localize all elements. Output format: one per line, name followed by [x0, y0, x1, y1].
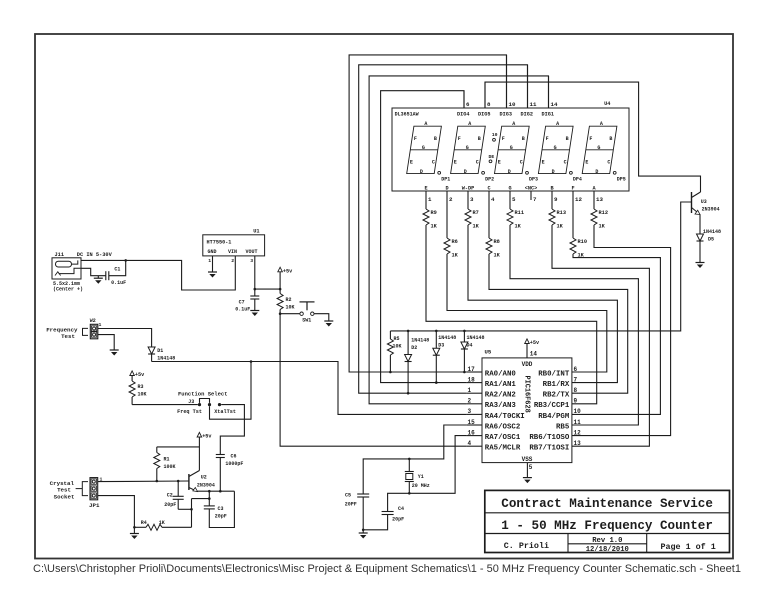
svg-text:DIG3: DIG3 — [500, 111, 512, 117]
svg-text:C. Prioli: C. Prioli — [504, 541, 549, 551]
svg-text:11: 11 — [530, 101, 537, 108]
svg-text:A: A — [600, 121, 603, 127]
svg-text:D: D — [552, 169, 555, 175]
wire J11 sleeve to ground and C1 — [81, 268, 106, 275]
wire C2 bottom — [178, 508, 191, 510]
svg-text:Test: Test — [61, 333, 75, 340]
wire OSC2 to Y1/C5 — [363, 425, 466, 494]
svg-text:3: 3 — [250, 258, 253, 264]
svg-text:7: 7 — [574, 376, 578, 383]
svg-text:B: B — [522, 136, 525, 142]
power +5V near R2 — [278, 267, 283, 272]
wire segment C to RB2 — [489, 254, 628, 393]
svg-text:R10: R10 — [578, 239, 588, 245]
svg-text:R4: R4 — [141, 520, 147, 526]
svg-text:D: D — [420, 169, 423, 175]
wire OSC1 to Y1/C4 — [388, 436, 467, 512]
svg-text:DL3651AW: DL3651AW — [395, 111, 419, 117]
svg-text:B: B — [478, 136, 481, 142]
svg-text:RB5: RB5 — [556, 423, 570, 431]
svg-text:F: F — [571, 186, 574, 192]
svg-text:1: 1 — [99, 322, 102, 328]
svg-text:10: 10 — [492, 132, 498, 138]
diode D2 1N4148 — [407, 331, 409, 355]
svg-text:DP2: DP2 — [485, 177, 494, 183]
svg-text:1K: 1K — [473, 224, 480, 230]
svg-text:J11: J11 — [55, 252, 65, 258]
svg-text:B: B — [566, 136, 569, 142]
diode D4 1N4148 — [463, 331, 465, 342]
svg-text:20 MHz: 20 MHz — [412, 483, 430, 489]
svg-text:E: E — [424, 186, 427, 192]
svg-text:6: 6 — [574, 366, 578, 373]
svg-text:Function Select: Function Select — [178, 390, 228, 397]
svg-text:R5: R5 — [394, 336, 400, 342]
svg-text:DIG4: DIG4 — [457, 111, 469, 117]
svg-text:VOUT: VOUT — [246, 249, 258, 255]
svg-text:C: C — [476, 159, 479, 165]
svg-text:RB4/PGM: RB4/PGM — [538, 413, 570, 421]
display pin 7 NC stub — [530, 191, 532, 200]
capacitor C1 0.1uF — [105, 271, 107, 280]
U5 pin 17 RA0/AN0 — [466, 371, 482, 373]
svg-text:10K: 10K — [393, 343, 402, 349]
svg-text:C: C — [607, 159, 610, 165]
node C4/C5 ground — [362, 529, 365, 532]
svg-text:18: 18 — [468, 376, 476, 383]
wire crystal feedback — [191, 499, 193, 528]
capacitor C5 20PF — [357, 493, 369, 495]
U5 pin 4 RA5/MCLR — [466, 445, 482, 447]
svg-text:12: 12 — [574, 429, 582, 436]
svg-text:B: B — [609, 136, 612, 142]
connector JP1 crystal test socket — [90, 478, 98, 500]
svg-text:1N4148: 1N4148 — [703, 229, 721, 235]
svg-text:E: E — [585, 159, 588, 165]
node R1 base — [156, 480, 159, 483]
svg-text:5: 5 — [529, 464, 533, 471]
wire segment E to RB3 — [426, 225, 597, 404]
wire R3 to J3 — [132, 404, 198, 406]
svg-text:F: F — [458, 136, 461, 142]
resistor R12 1K — [593, 191, 595, 209]
svg-text:VIN: VIN — [228, 249, 237, 255]
display digit 5 — [582, 126, 617, 173]
svg-text:17: 17 — [468, 366, 476, 373]
svg-text:B: B — [434, 136, 437, 142]
wire segment D to RB0 — [447, 254, 607, 372]
svg-text:RA2/AN2: RA2/AN2 — [485, 392, 516, 400]
U5 pin 15 RA6/OSC2 — [466, 424, 482, 426]
ground at J11 — [97, 276, 99, 279]
svg-text:15: 15 — [468, 419, 476, 426]
svg-text:Socket: Socket — [54, 493, 75, 500]
svg-text:1: 1 — [208, 258, 211, 264]
svg-text:DIG5: DIG5 — [478, 111, 490, 117]
svg-text:RA7/OSC1: RA7/OSC1 — [485, 434, 521, 442]
svg-text:C5: C5 — [345, 493, 351, 499]
svg-text:2: 2 — [468, 398, 472, 405]
svg-text:7: 7 — [533, 196, 537, 203]
svg-text:J3: J3 — [188, 399, 194, 405]
svg-text:10K: 10K — [286, 304, 295, 310]
svg-text:+5v: +5v — [283, 268, 293, 274]
svg-text:A: A — [512, 121, 515, 127]
svg-text:DP3: DP3 — [529, 177, 538, 183]
U5 pin 16 RA7/OSC1 — [466, 435, 482, 437]
svg-text:D: D — [595, 169, 598, 175]
svg-text:Page 1 of 1: Page 1 of 1 — [660, 542, 715, 552]
svg-text:10: 10 — [574, 408, 582, 415]
svg-text:U4: U4 — [604, 101, 611, 107]
wire J3 XtalTst pin to C6 — [220, 405, 244, 455]
svg-text:D: D — [508, 169, 511, 175]
display DP1 dot — [438, 171, 441, 174]
svg-text:1K: 1K — [557, 224, 564, 230]
display digit 4 — [538, 126, 573, 173]
svg-text:GND: GND — [208, 249, 217, 255]
svg-text:C: C — [432, 159, 435, 165]
svg-text:2N3904: 2N3904 — [197, 483, 215, 489]
U5 pin 18 RA1/AN1 — [466, 382, 482, 384]
svg-text:1K: 1K — [159, 520, 165, 526]
svg-text:4: 4 — [491, 196, 495, 203]
U5 VSS pin 5 — [526, 463, 528, 478]
connector W2 frequency test — [90, 324, 98, 339]
svg-text:C: C — [487, 186, 490, 192]
svg-text:Contract Maintenance Service: Contract Maintenance Service — [501, 497, 713, 511]
svg-text:D5: D5 — [708, 237, 714, 243]
svg-text:20pF: 20pF — [392, 516, 404, 522]
ground at SW1 — [324, 320, 333, 322]
ground at W2 — [110, 349, 119, 351]
svg-text:1N4148: 1N4148 — [438, 335, 456, 341]
wire U3 emitter to D5 — [699, 215, 701, 235]
svg-text:RB2/TX: RB2/TX — [543, 392, 570, 400]
svg-text:1: 1 — [468, 387, 472, 394]
power +5V at R3 — [130, 371, 135, 376]
svg-text:RA4/T0CKI: RA4/T0CKI — [485, 413, 525, 421]
svg-text:DP1: DP1 — [441, 177, 450, 183]
resistor R1 100K — [156, 447, 158, 453]
svg-text:E: E — [410, 159, 413, 165]
svg-text:A: A — [468, 121, 471, 127]
svg-text:R7: R7 — [473, 210, 479, 216]
svg-text:DIG2: DIG2 — [521, 111, 533, 117]
svg-text:W2: W2 — [90, 318, 96, 324]
wire frequency line to RA4/T0CKI — [152, 362, 467, 415]
svg-text:+5v: +5v — [135, 372, 145, 378]
svg-text:12/18/2010: 12/18/2010 — [586, 546, 629, 554]
ground at D5 — [696, 262, 705, 264]
display pin 14 DIG1 — [548, 76, 550, 108]
svg-text:A: A — [424, 121, 427, 127]
capacitor C3 20pF loop — [208, 491, 210, 506]
wire JP1 pin1 to U2 base — [98, 480, 189, 483]
svg-text:E: E — [498, 159, 501, 165]
svg-text:F: F — [502, 136, 505, 142]
resistor R3 10K — [131, 376, 133, 382]
wire U2 emitter — [198, 490, 235, 492]
svg-text:+5v: +5v — [530, 340, 540, 346]
svg-text:1: 1 — [428, 196, 432, 203]
display digit 1 — [407, 126, 442, 173]
svg-text:G: G — [510, 145, 513, 151]
wire node to SW1 — [280, 313, 300, 315]
svg-text:RB1/RX: RB1/RX — [543, 381, 570, 389]
svg-text:1K: 1K — [515, 224, 522, 230]
resistor R5 10K — [389, 331, 391, 339]
wire segment G to RB5 — [510, 225, 638, 425]
display U4 DL3651AW 5-digit — [392, 108, 629, 191]
svg-text:W-DP: W-DP — [462, 186, 474, 192]
svg-text:C3: C3 — [218, 506, 224, 512]
svg-text:C:\Users\Christopher Prioli\Do: C:\Users\Christopher Prioli\Documents\El… — [33, 563, 741, 575]
capacitor C2 20pF — [177, 481, 179, 496]
wire VOUT to +5V rail — [255, 288, 280, 290]
svg-text:1K: 1K — [494, 253, 501, 259]
svg-text:C4: C4 — [398, 506, 404, 512]
svg-text:8: 8 — [487, 101, 491, 108]
svg-text:DC IN 5-30V: DC IN 5-30V — [77, 252, 113, 258]
wire segment A to RB6 — [572, 225, 671, 436]
wire W2 pin2 to ground — [98, 335, 114, 350]
svg-text:2: 2 — [449, 196, 453, 203]
display DP2 dot — [482, 171, 485, 174]
svg-text:D3: D3 — [438, 342, 444, 348]
svg-text:1N4148: 1N4148 — [157, 355, 175, 361]
svg-text:C7: C7 — [239, 299, 245, 305]
wire DIG1 select bus — [369, 76, 548, 404]
svg-text:1 - 50 MHz Frequency Counter: 1 - 50 MHz Frequency Counter — [501, 519, 713, 533]
svg-text:F: F — [546, 136, 549, 142]
display digit 3 — [495, 126, 530, 173]
svg-text:G: G — [508, 186, 511, 192]
node Y1 bottom — [408, 492, 411, 495]
connector J11 DC power jack — [52, 258, 81, 279]
wire J11 to U1 VIN — [81, 256, 235, 290]
resistor R4 1K — [134, 526, 146, 528]
svg-text:RA1/AN1: RA1/AN1 — [485, 381, 517, 389]
resistor R8 1K — [488, 191, 490, 238]
svg-text:U5: U5 — [485, 349, 492, 356]
svg-text:B: B — [550, 186, 553, 192]
svg-text:C2: C2 — [167, 492, 173, 498]
svg-text:R11: R11 — [515, 210, 525, 216]
svg-text:1K: 1K — [452, 253, 459, 259]
svg-text:VSS: VSS — [522, 456, 533, 463]
svg-text:E: E — [542, 159, 545, 165]
svg-text:C1: C1 — [114, 267, 120, 273]
svg-text:3: 3 — [470, 196, 474, 203]
svg-text:C: C — [520, 159, 523, 165]
wire segment B to RB7 — [552, 225, 649, 446]
svg-text:D1: D1 — [157, 348, 163, 354]
ground at C7 — [250, 310, 259, 312]
switch SW1 pushbutton — [300, 312, 303, 315]
svg-text:1K: 1K — [599, 224, 606, 230]
display pin 10 DIG3 — [506, 55, 508, 108]
svg-text:U3: U3 — [701, 199, 707, 205]
svg-text:C: C — [564, 159, 567, 165]
svg-text:G: G — [597, 145, 600, 151]
wire +5V to U2 collector — [198, 437, 200, 471]
svg-text:R8: R8 — [494, 239, 500, 245]
resistor R6 1K — [446, 191, 448, 238]
svg-text:Y1: Y1 — [418, 474, 424, 480]
power +5V at U5 VDD — [525, 339, 530, 344]
svg-text:0.1uF: 0.1uF — [235, 306, 250, 312]
svg-text:11: 11 — [574, 419, 582, 426]
display DP4 dot — [570, 171, 573, 174]
svg-text:+5v: +5v — [202, 434, 212, 440]
node Y1 top — [408, 458, 411, 461]
display DP5 dot — [613, 171, 616, 174]
svg-text:G: G — [554, 145, 557, 151]
wire JP1 pin3 to ground — [98, 496, 135, 534]
svg-text:R12: R12 — [599, 210, 609, 216]
diode D5 1N4148 — [697, 234, 704, 241]
svg-text:D2: D2 — [411, 345, 417, 351]
resistor R2 10K — [277, 294, 283, 310]
display digit 2 — [451, 126, 486, 173]
wire DIG3 select bus — [349, 55, 506, 372]
svg-text:HT7550-1: HT7550-1 — [207, 240, 232, 246]
wire segment DP to RB1 — [468, 225, 617, 383]
svg-text:4: 4 — [468, 440, 472, 447]
svg-text:RB7/T1OSI: RB7/T1OSI — [529, 445, 569, 453]
display pin 11 DIG2 — [527, 65, 529, 108]
wire SW1 to ground — [314, 314, 329, 321]
node freq/J3 junction — [250, 360, 253, 363]
power +5V at U2 — [197, 432, 202, 437]
svg-text:R13: R13 — [557, 210, 567, 216]
wire segment F to RB4 — [572, 254, 661, 414]
ground at U5 VSS — [523, 477, 532, 479]
svg-text:9: 9 — [574, 398, 578, 405]
svg-text:RA0/AN0: RA0/AN0 — [485, 370, 517, 378]
svg-text:RB0/INT: RB0/INT — [538, 370, 570, 378]
svg-text:F: F — [589, 136, 592, 142]
wire DIG5 to U3 collector — [485, 82, 701, 192]
svg-text:14: 14 — [530, 351, 538, 358]
svg-text:13: 13 — [596, 196, 603, 203]
svg-text:A: A — [556, 121, 559, 127]
svg-text:G: G — [422, 145, 425, 151]
capacitor C6 1000pF — [216, 454, 225, 456]
node R2/SW1 — [279, 312, 282, 315]
wire +5V to R2 — [279, 272, 281, 294]
svg-text:DIG1: DIG1 — [542, 111, 554, 117]
diode D1 1N4148 — [148, 347, 155, 354]
title block — [485, 490, 730, 552]
svg-text:1000pF: 1000pF — [225, 461, 243, 467]
svg-text:JP1: JP1 — [89, 502, 100, 509]
svg-text:D: D — [445, 186, 448, 192]
svg-text:20pF: 20pF — [215, 514, 227, 520]
svg-text:12: 12 — [575, 196, 582, 203]
wire DIG2 select bus — [359, 65, 528, 393]
capacitor C7 0.1uF — [250, 295, 259, 297]
U1 pin 3 VOUT — [254, 256, 256, 296]
resistor R11 1K — [509, 191, 511, 209]
svg-text:D: D — [464, 169, 467, 175]
svg-text:13: 13 — [574, 440, 582, 447]
svg-text:R3: R3 — [138, 384, 144, 390]
svg-text:Rev 1.0: Rev 1.0 — [592, 537, 622, 545]
svg-text:8: 8 — [574, 387, 578, 394]
resistor R10 1K — [572, 191, 574, 238]
svg-text:R6: R6 — [452, 239, 458, 245]
svg-text:1K: 1K — [431, 224, 438, 230]
resistor R9 1K — [425, 191, 427, 209]
svg-text:6: 6 — [466, 101, 470, 108]
display pin 8 DIG5 — [484, 82, 486, 108]
svg-text:RB3/CCP1: RB3/CCP1 — [534, 402, 570, 410]
diode D3 1N4148 — [435, 331, 437, 348]
svg-text:20PF: 20PF — [345, 502, 357, 508]
svg-text:2: 2 — [231, 258, 234, 264]
svg-text:PIC16F628: PIC16F628 — [523, 376, 531, 413]
svg-text:20pF: 20pF — [164, 502, 176, 508]
display DP3 dot — [526, 171, 529, 174]
display pin 6 DIG4 — [463, 91, 465, 108]
U5 pin 3 RA4/T0CKI — [466, 413, 482, 415]
ground at JP1 — [130, 533, 139, 535]
node VOUT junction — [254, 288, 257, 291]
wire W2 pin1 to D1 — [98, 329, 152, 348]
crystal Y1 20 MHz — [408, 459, 410, 472]
svg-text:SW1: SW1 — [302, 318, 311, 324]
wire J3 center pin to freq line — [210, 362, 252, 420]
svg-text:G: G — [466, 145, 469, 151]
svg-text:U1: U1 — [253, 229, 259, 235]
transistor U2 2N3904 — [188, 474, 190, 490]
svg-text:F: F — [414, 136, 417, 142]
svg-text:14: 14 — [551, 101, 558, 108]
node C2 base — [177, 480, 180, 483]
svg-text:VDD: VDD — [522, 361, 533, 368]
svg-text:Freq Tst: Freq Tst — [177, 409, 202, 415]
svg-text:C6: C6 — [231, 454, 237, 460]
svg-text:RB6/T1OSO: RB6/T1OSO — [529, 434, 569, 442]
svg-text:U2: U2 — [201, 474, 207, 480]
svg-text:RA6/OSC2: RA6/OSC2 — [485, 423, 520, 431]
svg-text:100K: 100K — [164, 464, 176, 470]
svg-text:RA3/AN3: RA3/AN3 — [485, 402, 517, 410]
U5 pin 2 RA3/AN3 — [466, 403, 482, 405]
svg-text:1N4148: 1N4148 — [467, 335, 485, 341]
svg-text:2N3904: 2N3904 — [702, 206, 720, 212]
wire R1 top — [157, 446, 200, 448]
svg-text:DP4: DP4 — [573, 177, 582, 183]
wire MCLR from R2 node to U5 pin 4 — [280, 314, 466, 447]
svg-text:RA5/MCLR: RA5/MCLR — [485, 445, 521, 453]
svg-text:16: 16 — [468, 429, 476, 436]
svg-text:XtalTst: XtalTst — [214, 409, 236, 415]
wire DIG4 select bus — [381, 91, 467, 383]
wire U3 base rail — [390, 202, 691, 331]
transistor U3 2N3904 — [691, 192, 693, 213]
svg-text:DP5: DP5 — [617, 177, 626, 183]
svg-text:10: 10 — [509, 101, 516, 108]
svg-text:E: E — [454, 159, 457, 165]
svg-text:D4: D4 — [467, 342, 473, 348]
regulator U1 HT7550-1 — [203, 235, 265, 256]
resistor R7 1K — [467, 191, 469, 209]
resistor R13 1K — [551, 191, 553, 209]
U5 pin 1 RA2/AN2 — [466, 392, 482, 394]
